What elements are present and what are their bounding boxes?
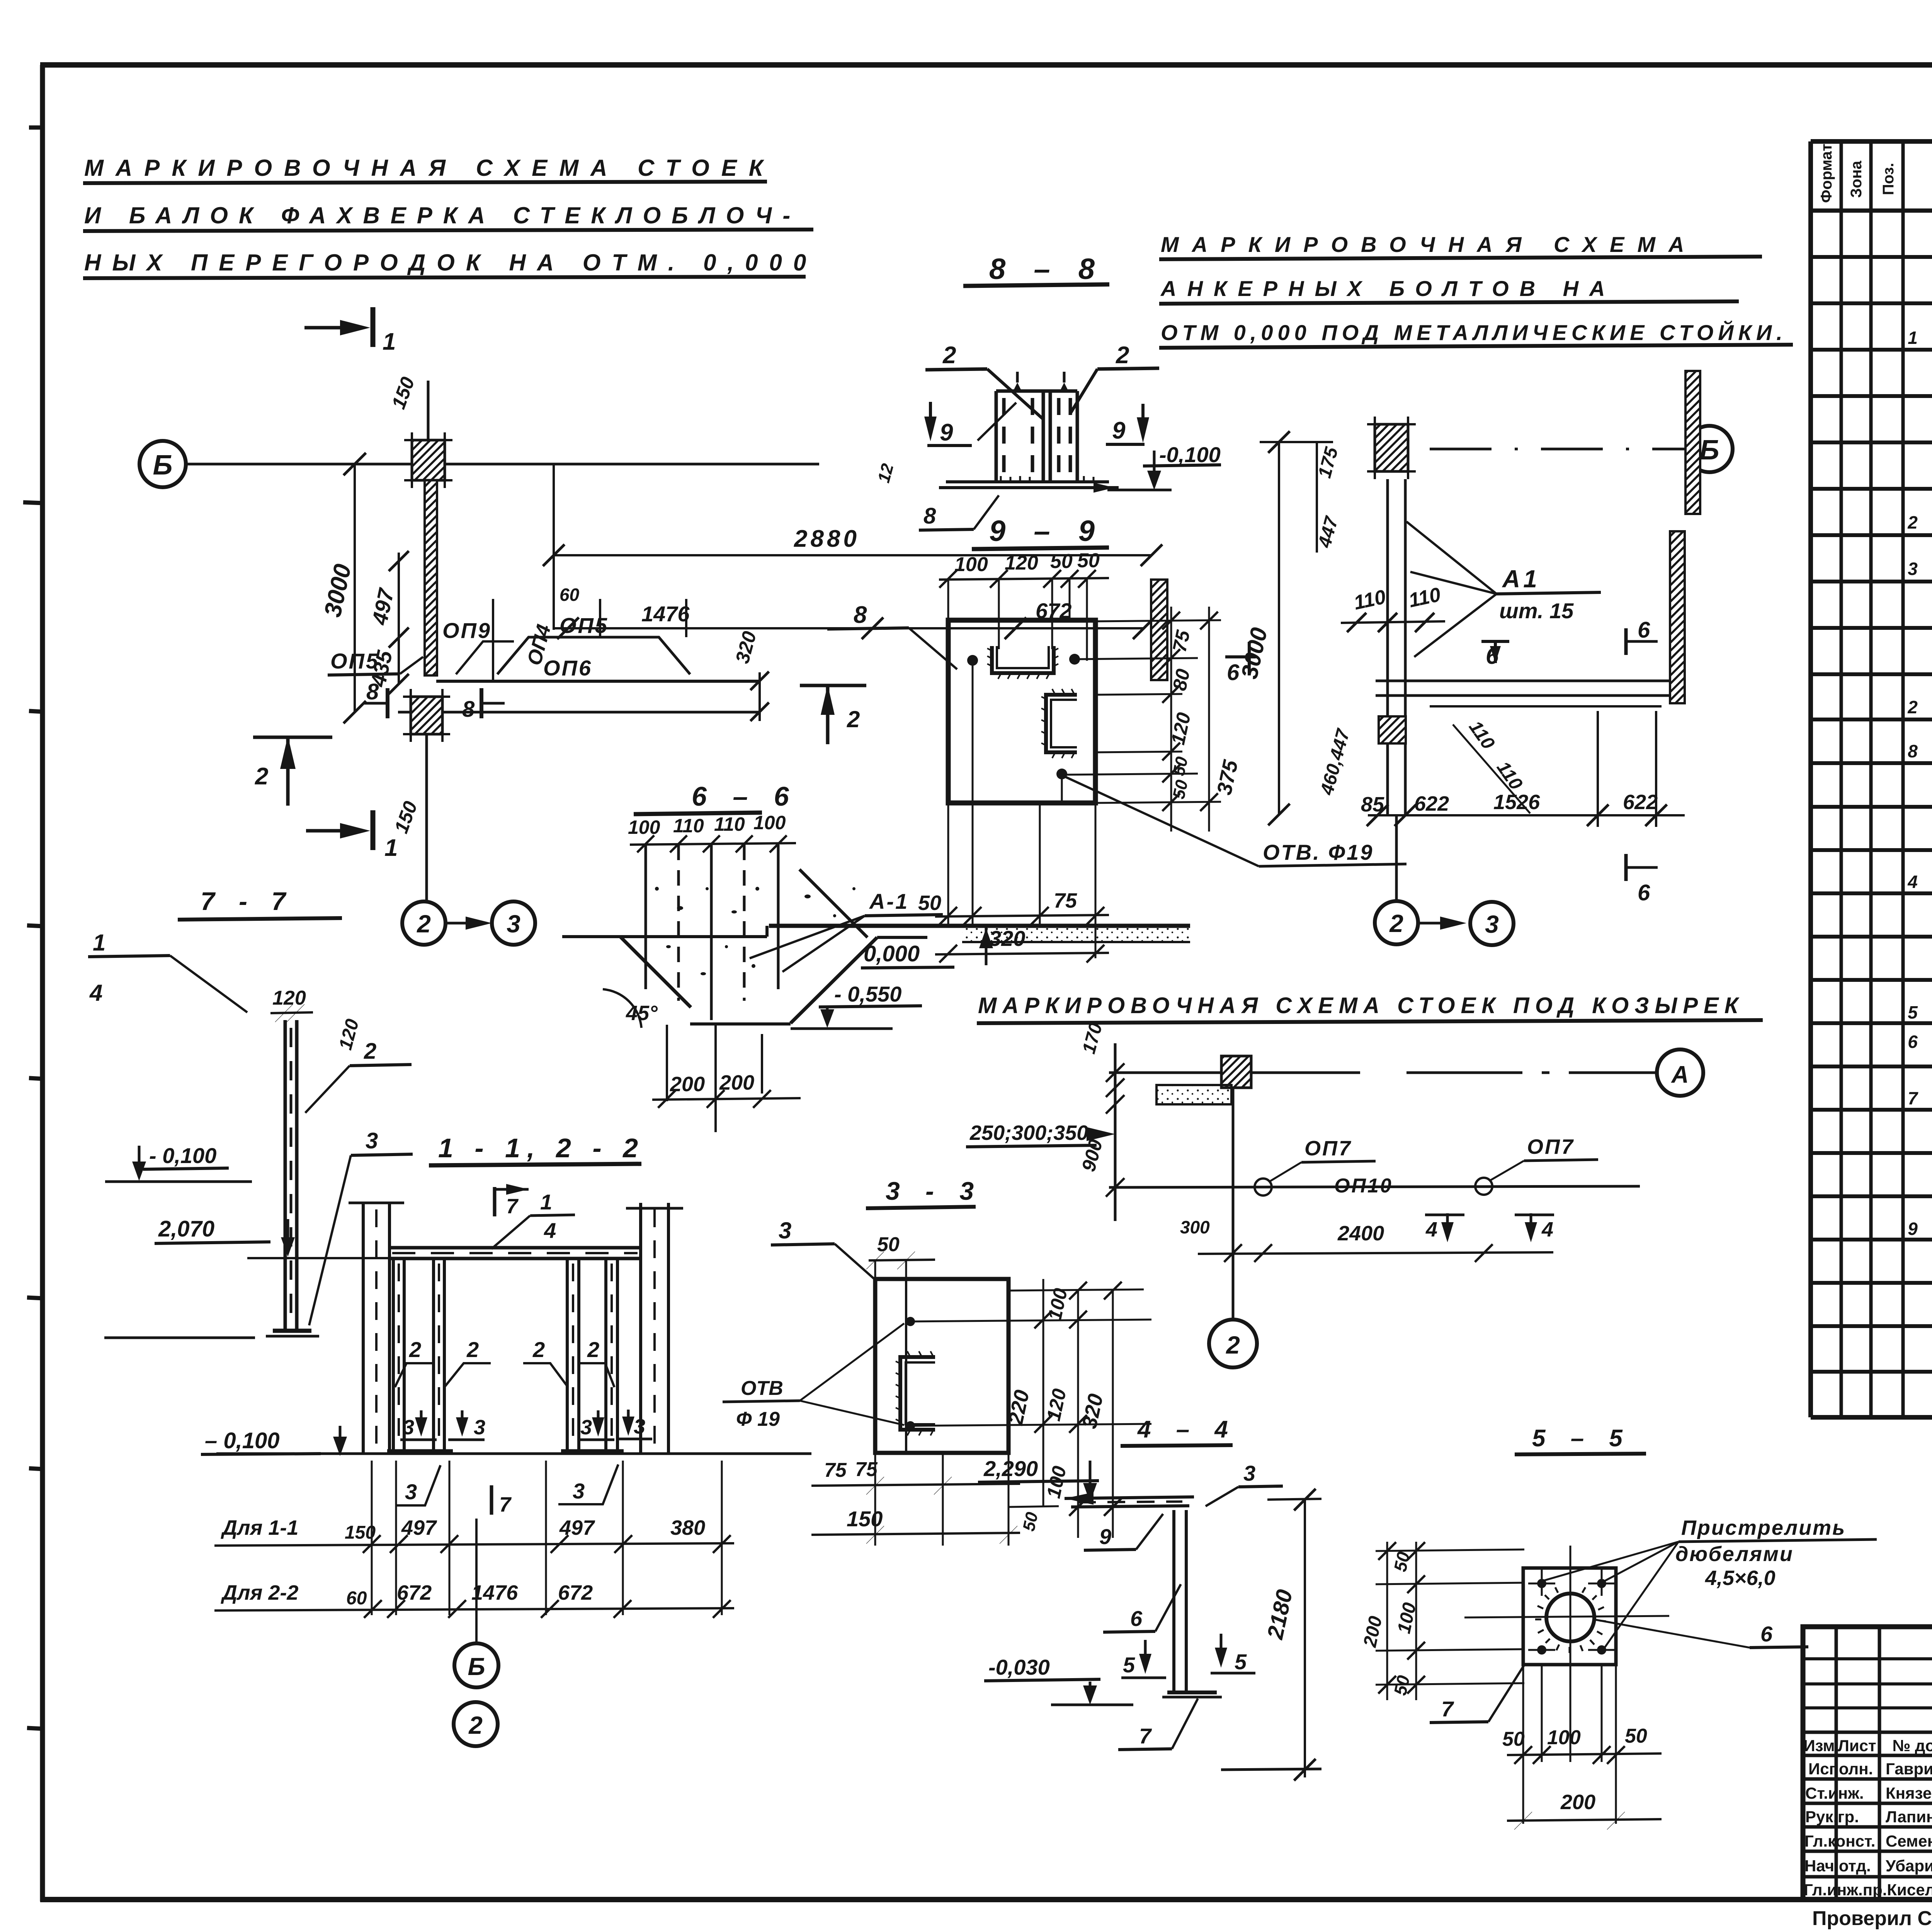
- svg-text:75: 75: [824, 1459, 847, 1481]
- svg-text:100: 100: [1547, 1726, 1581, 1749]
- svg-text:8 – 8: 8 – 8: [989, 253, 1105, 286]
- svg-text:9 – 9: 9 – 9: [989, 515, 1105, 548]
- svg-text:2,290: 2,290: [983, 1456, 1038, 1481]
- svg-text:2: 2: [1116, 342, 1129, 369]
- svg-text:8: 8: [923, 503, 936, 529]
- svg-text:50: 50: [1502, 1728, 1525, 1750]
- svg-text:6: 6: [1760, 1622, 1773, 1646]
- svg-text:7: 7: [1441, 1697, 1454, 1721]
- svg-text:110: 110: [673, 815, 704, 837]
- svg-text:Формат: Формат: [1818, 144, 1835, 203]
- svg-text:7: 7: [506, 1195, 519, 1218]
- svg-text:3: 3: [580, 1416, 592, 1439]
- svg-text:622: 622: [1623, 791, 1658, 814]
- svg-text:Гл.инж.пр.Киселева: Гл.инж.пр.Киселева: [1804, 1881, 1932, 1899]
- svg-text:Для 2-2: Для 2-2: [221, 1581, 298, 1604]
- svg-text:4: 4: [89, 980, 102, 1006]
- svg-text:– 0,100: – 0,100: [205, 1428, 280, 1453]
- svg-text:50: 50: [1077, 549, 1100, 572]
- svg-text:2: 2: [532, 1337, 545, 1362]
- svg-text:3: 3: [474, 1416, 485, 1439]
- svg-text:1526: 1526: [1493, 791, 1540, 814]
- svg-text:3: 3: [403, 1416, 414, 1439]
- svg-text:3: 3: [573, 1479, 585, 1503]
- svg-text:4 – 4: 4 – 4: [1137, 1416, 1237, 1443]
- svg-text:7: 7: [499, 1493, 512, 1516]
- svg-text:2: 2: [1907, 697, 1918, 717]
- svg-text:Зона: Зона: [1848, 160, 1865, 198]
- svg-text:497: 497: [559, 1516, 595, 1539]
- svg-text:5: 5: [1235, 1650, 1247, 1674]
- svg-text:Семенов: Семенов: [1886, 1832, 1932, 1850]
- svg-text:100: 100: [753, 812, 786, 833]
- svg-text:50: 50: [918, 891, 941, 915]
- svg-text:1: 1: [383, 328, 396, 355]
- svg-text:4: 4: [1907, 872, 1918, 892]
- svg-text:ОП7: ОП7: [1304, 1137, 1352, 1160]
- svg-text:3: 3: [1243, 1461, 1255, 1485]
- svg-text:ОТВ. Ф19: ОТВ. Ф19: [1263, 840, 1374, 864]
- svg-text:Пристрелить: Пристрелить: [1681, 1516, 1846, 1539]
- svg-text:622: 622: [1414, 792, 1449, 815]
- svg-text:3: 3: [1908, 559, 1918, 579]
- svg-text:ОП9: ОП9: [442, 618, 492, 643]
- svg-text:А1: А1: [1502, 565, 1540, 593]
- svg-text:4: 4: [1541, 1218, 1553, 1241]
- svg-text:50: 50: [1050, 550, 1073, 573]
- svg-text:9: 9: [1908, 1219, 1918, 1239]
- svg-text:2: 2: [1907, 512, 1918, 532]
- svg-text:Ф 19: Ф 19: [736, 1408, 780, 1430]
- svg-text:1476: 1476: [471, 1581, 518, 1604]
- svg-text:4: 4: [1425, 1218, 1437, 1241]
- svg-text:Проверил Симановская: Проверил Симановская: [1812, 1907, 1932, 1930]
- svg-text:МАРКИРОВОЧНАЯ СХЕМА: МАРКИРОВОЧНАЯ СХЕМА: [1161, 232, 1697, 257]
- svg-text:2: 2: [1226, 1331, 1240, 1359]
- svg-text:1: 1: [1908, 328, 1918, 348]
- svg-text:шт. 15: шт. 15: [1499, 599, 1574, 623]
- svg-text:ОП5: ОП5: [330, 649, 379, 673]
- svg-text:110: 110: [714, 813, 745, 835]
- svg-text:Лист: Лист: [1838, 1736, 1876, 1755]
- svg-text:75: 75: [855, 1458, 878, 1481]
- svg-text:-0,100: -0,100: [1159, 442, 1221, 467]
- svg-text:3 - 3: 3 - 3: [886, 1177, 983, 1205]
- svg-text:2: 2: [468, 1711, 483, 1739]
- svg-text:5 – 5: 5 – 5: [1532, 1425, 1632, 1452]
- svg-text:6: 6: [1638, 617, 1650, 643]
- svg-text:100: 100: [628, 816, 660, 838]
- svg-text:2880: 2880: [794, 526, 860, 552]
- svg-text:2: 2: [1389, 910, 1403, 937]
- svg-text:100: 100: [954, 553, 988, 576]
- svg-text:7 - 7: 7 - 7: [201, 887, 294, 915]
- svg-text:НЫХ ПЕРЕГОРОДОК НА ОТМ. 0,000: НЫХ ПЕРЕГОРОДОК НА ОТМ. 0,000: [84, 250, 817, 276]
- svg-text:МАРКИРОВОЧНАЯ СХЕМА СТОЕК: МАРКИРОВОЧНАЯ СХЕМА СТОЕК: [84, 155, 775, 181]
- svg-text:3: 3: [405, 1480, 417, 1504]
- svg-text:2: 2: [466, 1337, 479, 1362]
- svg-text:1476: 1476: [641, 602, 690, 626]
- svg-text:6: 6: [1130, 1606, 1143, 1631]
- svg-text:6 – 6: 6 – 6: [692, 781, 798, 811]
- svg-text:- 0,100: - 0,100: [149, 1143, 216, 1168]
- svg-text:ОП6: ОП6: [543, 656, 592, 680]
- svg-text:ОТВ: ОТВ: [741, 1377, 783, 1400]
- svg-text:60: 60: [346, 1588, 367, 1609]
- svg-text:АНКЕРНЫХ БОЛТОВ НА: АНКЕРНЫХ БОЛТОВ НА: [1160, 276, 1616, 301]
- svg-text:Ст.инж.: Ст.инж.: [1805, 1784, 1864, 1802]
- svg-text:120: 120: [1005, 552, 1038, 574]
- svg-text:Изм: Изм: [1803, 1736, 1835, 1755]
- svg-text:3: 3: [1485, 910, 1499, 938]
- svg-text:Гаврилова: Гаврилова: [1886, 1760, 1932, 1778]
- svg-text:МАРКИРОВОЧНАЯ СХЕМА СТОЕК ПОД: МАРКИРОВОЧНАЯ СХЕМА СТОЕК ПОД КОЗЫРЕК: [978, 993, 1744, 1018]
- svg-text:2: 2: [255, 763, 268, 790]
- svg-text:9: 9: [1099, 1524, 1111, 1549]
- svg-text:Для 1-1: Для 1-1: [221, 1516, 298, 1539]
- svg-text:Б: Б: [1700, 435, 1719, 466]
- svg-text:5: 5: [1908, 1002, 1918, 1022]
- svg-text:1: 1: [384, 835, 398, 861]
- svg-text:7: 7: [1139, 1724, 1152, 1748]
- svg-text:№ докум.: № докум.: [1892, 1736, 1932, 1755]
- svg-text:1 - 1, 2 - 2: 1 - 1, 2 - 2: [438, 1133, 645, 1163]
- svg-text:4: 4: [544, 1218, 556, 1243]
- svg-text:120: 120: [272, 987, 306, 1009]
- svg-text:Рук.гр.: Рук.гр.: [1805, 1808, 1859, 1826]
- svg-text:60: 60: [560, 585, 580, 605]
- svg-text:50: 50: [1625, 1725, 1647, 1747]
- svg-text:8: 8: [1908, 741, 1918, 761]
- svg-text:50: 50: [877, 1233, 900, 1256]
- svg-text:80: 80: [1168, 667, 1194, 692]
- svg-text:Б: Б: [153, 450, 173, 481]
- svg-text:2: 2: [587, 1337, 599, 1362]
- svg-text:250;300;350: 250;300;350: [969, 1121, 1088, 1145]
- svg-text:2400: 2400: [1337, 1222, 1384, 1245]
- svg-text:Убариев: Убариев: [1886, 1857, 1932, 1875]
- svg-text:2: 2: [847, 706, 860, 732]
- svg-text:ОТМ 0,000 ПОД МЕТАЛЛИЧЕСКИЕ СТ: ОТМ 0,000 ПОД МЕТАЛЛИЧЕСКИЕ СТОЙКИ.: [1161, 320, 1787, 345]
- svg-text:-0,030: -0,030: [988, 1655, 1050, 1679]
- svg-text:1: 1: [540, 1190, 552, 1214]
- svg-text:ОП10: ОП10: [1334, 1175, 1393, 1197]
- svg-text:- 0,550: - 0,550: [834, 982, 901, 1006]
- svg-text:320: 320: [989, 926, 1025, 951]
- svg-text:3: 3: [779, 1218, 791, 1243]
- svg-text:Князева: Князева: [1886, 1784, 1932, 1802]
- svg-text:672: 672: [397, 1581, 432, 1604]
- svg-text:200: 200: [1560, 1791, 1595, 1814]
- svg-text:Исполн.: Исполн.: [1808, 1760, 1873, 1778]
- svg-text:3: 3: [507, 910, 520, 938]
- svg-text:300: 300: [1180, 1217, 1210, 1237]
- svg-text:380: 380: [670, 1516, 705, 1539]
- svg-text:3: 3: [634, 1415, 645, 1438]
- svg-text:2: 2: [364, 1039, 376, 1064]
- svg-text:672: 672: [558, 1581, 593, 1604]
- svg-text:И БАЛОК ФАХВЕРКА СТЕКЛОБЛОЧ-: И БАЛОК ФАХВЕРКА СТЕКЛОБЛОЧ-: [84, 202, 801, 228]
- svg-text:Гл.конст.: Гл.конст.: [1804, 1832, 1875, 1850]
- svg-text:А: А: [1671, 1061, 1689, 1088]
- svg-text:9: 9: [1112, 417, 1126, 444]
- svg-text:ОП7: ОП7: [1527, 1135, 1575, 1158]
- svg-text:2: 2: [409, 1337, 421, 1362]
- svg-text:3: 3: [366, 1128, 378, 1153]
- svg-text:8: 8: [366, 679, 379, 704]
- svg-text:7: 7: [1908, 1088, 1918, 1108]
- svg-text:0,000: 0,000: [864, 941, 920, 966]
- svg-text:4,5×6,0: 4,5×6,0: [1705, 1566, 1776, 1590]
- svg-text:85: 85: [1361, 793, 1384, 816]
- svg-text:6: 6: [1227, 660, 1240, 685]
- svg-text:8: 8: [462, 697, 475, 722]
- svg-text:2: 2: [942, 342, 956, 369]
- svg-text:Нач.отд.: Нач.отд.: [1804, 1857, 1871, 1875]
- svg-text:Лапина: Лапина: [1886, 1808, 1932, 1826]
- svg-text:6: 6: [1908, 1032, 1918, 1052]
- svg-text:5: 5: [1123, 1653, 1135, 1677]
- svg-text:45°: 45°: [626, 1002, 658, 1025]
- svg-text:75: 75: [1054, 889, 1077, 912]
- svg-text:Поз.: Поз.: [1880, 163, 1897, 195]
- svg-text:8: 8: [854, 602, 867, 628]
- svg-text:6: 6: [1638, 880, 1650, 905]
- svg-text:2,070: 2,070: [158, 1216, 214, 1242]
- svg-text:Б: Б: [468, 1653, 485, 1680]
- svg-text:150: 150: [847, 1507, 883, 1531]
- svg-text:А-1: А-1: [869, 889, 909, 913]
- svg-text:дюбелями: дюбелями: [1675, 1543, 1794, 1566]
- svg-text:2: 2: [417, 910, 431, 938]
- svg-text:1: 1: [93, 930, 105, 956]
- svg-text:9: 9: [940, 419, 953, 446]
